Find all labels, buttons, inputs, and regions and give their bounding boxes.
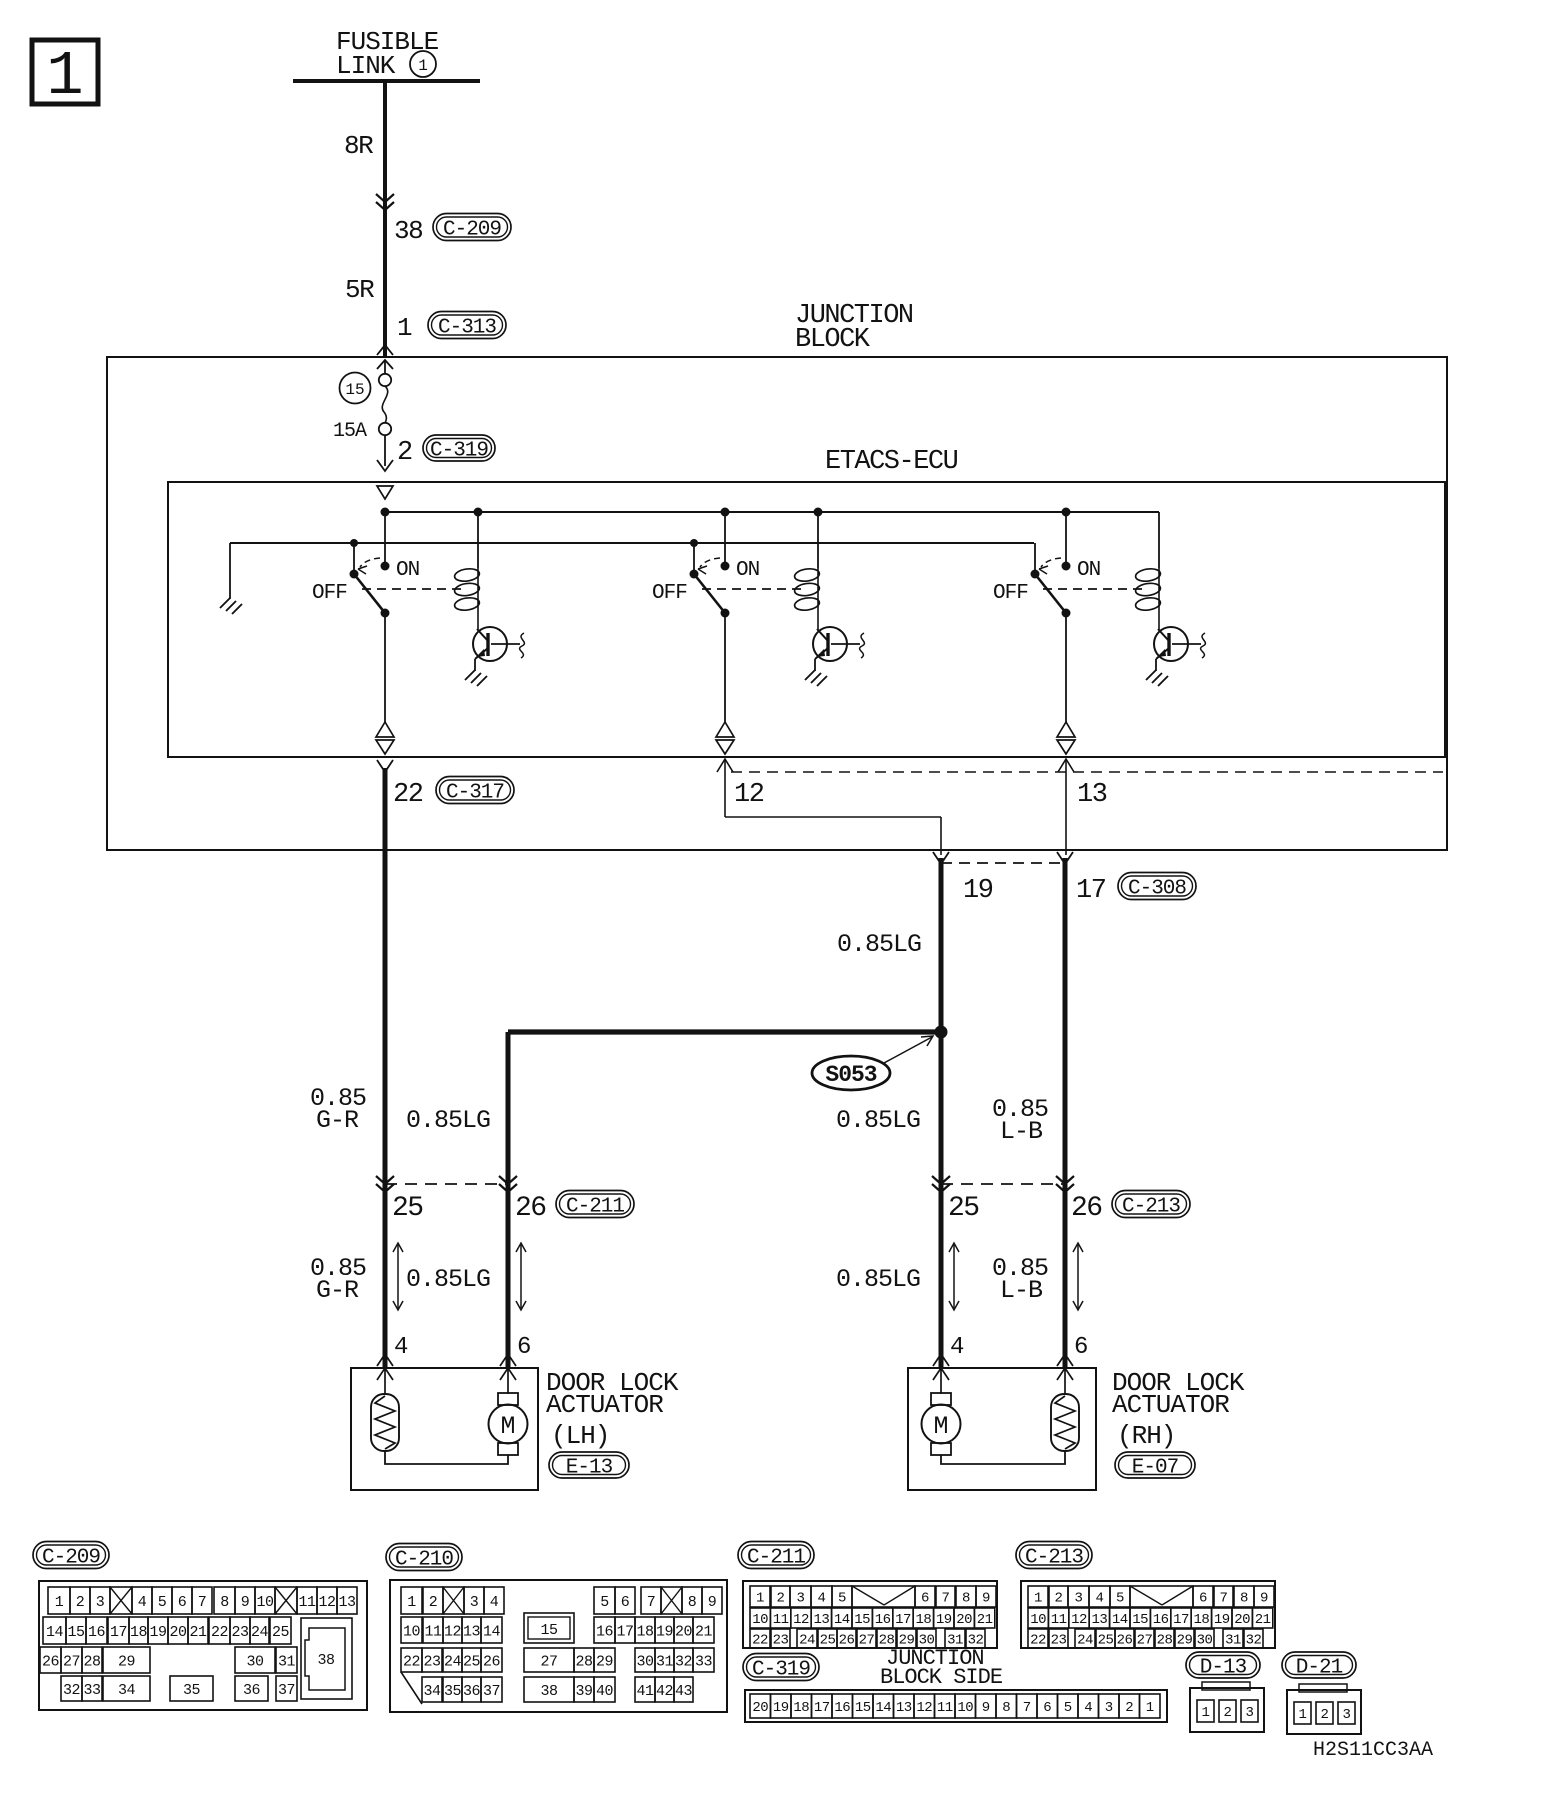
svg-text:5: 5 bbox=[1116, 1591, 1124, 1607]
svg-text:8: 8 bbox=[220, 1594, 229, 1611]
svg-text:6: 6 bbox=[1074, 1334, 1087, 1361]
svg-text:1: 1 bbox=[418, 57, 428, 75]
svg-text:30: 30 bbox=[246, 1653, 264, 1670]
svg-text:8: 8 bbox=[962, 1591, 970, 1607]
svg-text:9: 9 bbox=[241, 1594, 250, 1611]
svg-text:37: 37 bbox=[483, 1683, 500, 1700]
svg-text:C-209: C-209 bbox=[42, 1547, 100, 1570]
svg-text:16: 16 bbox=[88, 1624, 106, 1641]
svg-text:2: 2 bbox=[1224, 1705, 1232, 1721]
svg-text:38: 38 bbox=[317, 1652, 335, 1669]
svg-text:41: 41 bbox=[636, 1683, 654, 1700]
svg-text:15: 15 bbox=[540, 1622, 558, 1639]
svg-text:D-21: D-21 bbox=[1296, 1657, 1343, 1680]
svg-text:24: 24 bbox=[799, 1633, 815, 1649]
svg-text:2: 2 bbox=[1321, 1707, 1329, 1723]
svg-text:BLOCK: BLOCK bbox=[795, 325, 871, 355]
svg-text:9: 9 bbox=[982, 1591, 990, 1607]
svg-text:12: 12 bbox=[734, 780, 764, 810]
svg-text:C-209: C-209 bbox=[443, 219, 501, 242]
svg-text:12: 12 bbox=[1071, 1612, 1087, 1628]
svg-text:1: 1 bbox=[1202, 1705, 1210, 1721]
svg-text:2: 2 bbox=[397, 438, 412, 468]
svg-text:4: 4 bbox=[950, 1334, 964, 1361]
svg-text:12: 12 bbox=[318, 1594, 335, 1611]
svg-text:3: 3 bbox=[797, 1591, 805, 1607]
svg-text:C-317: C-317 bbox=[446, 782, 504, 805]
svg-text:18: 18 bbox=[915, 1612, 931, 1628]
svg-text:C-319: C-319 bbox=[430, 440, 488, 463]
svg-text:3: 3 bbox=[1343, 1707, 1351, 1723]
svg-text:1: 1 bbox=[1034, 1591, 1042, 1607]
svg-text:G-R: G-R bbox=[316, 1106, 359, 1135]
svg-text:20: 20 bbox=[675, 1623, 693, 1640]
svg-text:8R: 8R bbox=[344, 131, 373, 161]
svg-text:6: 6 bbox=[517, 1334, 530, 1361]
svg-text:8: 8 bbox=[1002, 1700, 1010, 1716]
svg-text:7: 7 bbox=[1023, 1700, 1031, 1716]
svg-text:32: 32 bbox=[63, 1682, 80, 1699]
svg-text:10: 10 bbox=[752, 1612, 768, 1628]
svg-text:22: 22 bbox=[403, 1653, 420, 1670]
svg-text:0.85LG: 0.85LG bbox=[406, 1265, 490, 1294]
svg-text:9: 9 bbox=[982, 1700, 990, 1716]
svg-text:38: 38 bbox=[394, 216, 422, 246]
svg-text:23: 23 bbox=[423, 1653, 441, 1670]
svg-text:26: 26 bbox=[839, 1633, 855, 1649]
svg-text:30: 30 bbox=[1197, 1633, 1213, 1649]
svg-text:C-210: C-210 bbox=[395, 1549, 453, 1572]
svg-text:26: 26 bbox=[1071, 1193, 1102, 1224]
svg-text:25: 25 bbox=[272, 1624, 290, 1641]
svg-text:26: 26 bbox=[1117, 1633, 1133, 1649]
svg-text:C-308: C-308 bbox=[1128, 878, 1186, 901]
svg-text:(RH): (RH) bbox=[1117, 1421, 1175, 1451]
svg-text:5R: 5R bbox=[345, 275, 374, 305]
svg-text:13: 13 bbox=[1091, 1612, 1107, 1628]
svg-text:36: 36 bbox=[463, 1683, 481, 1700]
svg-text:3: 3 bbox=[1105, 1700, 1113, 1716]
svg-text:10: 10 bbox=[1030, 1612, 1046, 1628]
svg-text:OFF: OFF bbox=[652, 582, 687, 605]
svg-text:ACTUATOR: ACTUATOR bbox=[1112, 1390, 1229, 1420]
svg-text:20: 20 bbox=[956, 1612, 972, 1628]
svg-text:12: 12 bbox=[793, 1612, 809, 1628]
svg-text:31: 31 bbox=[656, 1653, 674, 1670]
svg-text:19: 19 bbox=[1214, 1612, 1230, 1628]
svg-text:23: 23 bbox=[1051, 1633, 1067, 1649]
svg-text:1: 1 bbox=[756, 1591, 764, 1607]
svg-text:17: 17 bbox=[1173, 1612, 1189, 1628]
svg-text:11: 11 bbox=[937, 1700, 953, 1716]
svg-text:M: M bbox=[933, 1412, 948, 1441]
svg-text:16: 16 bbox=[875, 1612, 891, 1628]
svg-text:22: 22 bbox=[752, 1633, 768, 1649]
svg-text:27: 27 bbox=[63, 1653, 80, 1670]
svg-text:2: 2 bbox=[777, 1591, 785, 1607]
svg-text:19: 19 bbox=[963, 876, 993, 906]
svg-text:18: 18 bbox=[1193, 1612, 1209, 1628]
svg-text:8: 8 bbox=[688, 1594, 697, 1611]
svg-text:14: 14 bbox=[875, 1700, 891, 1716]
svg-text:27: 27 bbox=[859, 1633, 875, 1649]
svg-text:E-13: E-13 bbox=[566, 1457, 613, 1480]
svg-text:D-13: D-13 bbox=[1200, 1657, 1247, 1680]
svg-text:5: 5 bbox=[838, 1591, 846, 1607]
svg-text:3: 3 bbox=[1246, 1705, 1254, 1721]
svg-text:19: 19 bbox=[936, 1612, 952, 1628]
svg-text:14: 14 bbox=[834, 1612, 850, 1628]
svg-text:ON: ON bbox=[736, 559, 759, 582]
svg-text:16: 16 bbox=[1153, 1612, 1169, 1628]
svg-text:40: 40 bbox=[596, 1683, 614, 1700]
svg-text:4: 4 bbox=[138, 1594, 147, 1611]
svg-text:12: 12 bbox=[916, 1700, 932, 1716]
svg-text:15: 15 bbox=[345, 381, 364, 399]
svg-text:10: 10 bbox=[403, 1623, 421, 1640]
svg-text:20: 20 bbox=[169, 1624, 187, 1641]
svg-text:31: 31 bbox=[278, 1653, 296, 1670]
svg-text:28: 28 bbox=[575, 1653, 593, 1670]
svg-text:33: 33 bbox=[695, 1653, 713, 1670]
svg-text:14: 14 bbox=[1112, 1612, 1128, 1628]
svg-text:2: 2 bbox=[1125, 1700, 1133, 1716]
svg-text:16: 16 bbox=[834, 1700, 850, 1716]
svg-text:H2S11CC3AA: H2S11CC3AA bbox=[1313, 1739, 1433, 1762]
svg-text:L-B: L-B bbox=[1000, 1117, 1043, 1146]
svg-text:25: 25 bbox=[463, 1653, 481, 1670]
svg-text:17: 17 bbox=[1076, 876, 1106, 906]
svg-text:18: 18 bbox=[636, 1623, 654, 1640]
svg-text:30: 30 bbox=[636, 1653, 654, 1670]
svg-text:7: 7 bbox=[1220, 1591, 1228, 1607]
svg-text:21: 21 bbox=[189, 1624, 207, 1641]
svg-text:42: 42 bbox=[656, 1683, 673, 1700]
svg-text:0.85LG: 0.85LG bbox=[836, 1106, 920, 1135]
svg-text:11: 11 bbox=[298, 1594, 316, 1611]
svg-text:19: 19 bbox=[656, 1623, 673, 1640]
svg-text:1: 1 bbox=[1146, 1700, 1154, 1716]
svg-text:34: 34 bbox=[423, 1683, 441, 1700]
svg-text:9: 9 bbox=[708, 1594, 717, 1611]
svg-text:C-319: C-319 bbox=[752, 1659, 810, 1682]
svg-text:27: 27 bbox=[540, 1653, 557, 1670]
svg-text:21: 21 bbox=[1255, 1612, 1271, 1628]
svg-text:28: 28 bbox=[83, 1653, 101, 1670]
svg-text:31: 31 bbox=[1225, 1633, 1241, 1649]
svg-text:6: 6 bbox=[1199, 1591, 1207, 1607]
svg-text:24: 24 bbox=[1077, 1633, 1093, 1649]
svg-text:29: 29 bbox=[118, 1653, 135, 1670]
svg-text:36: 36 bbox=[243, 1682, 261, 1699]
svg-text:3: 3 bbox=[470, 1594, 479, 1611]
svg-text:16: 16 bbox=[596, 1623, 614, 1640]
svg-text:15: 15 bbox=[855, 1700, 871, 1716]
svg-text:6: 6 bbox=[621, 1594, 630, 1611]
svg-text:G-R: G-R bbox=[316, 1276, 359, 1305]
svg-text:BLOCK SIDE: BLOCK SIDE bbox=[880, 1665, 1003, 1690]
svg-text:29: 29 bbox=[1177, 1633, 1193, 1649]
svg-text:13: 13 bbox=[463, 1623, 481, 1640]
svg-text:1: 1 bbox=[407, 1594, 416, 1611]
svg-text:35: 35 bbox=[444, 1683, 462, 1700]
svg-text:26: 26 bbox=[515, 1193, 546, 1224]
svg-text:L-B: L-B bbox=[1000, 1276, 1043, 1305]
svg-text:22: 22 bbox=[393, 780, 423, 810]
svg-text:5: 5 bbox=[600, 1594, 609, 1611]
svg-text:C-213: C-213 bbox=[1025, 1547, 1083, 1570]
svg-text:20: 20 bbox=[752, 1700, 768, 1716]
svg-text:15: 15 bbox=[1132, 1612, 1148, 1628]
svg-text:1: 1 bbox=[397, 313, 412, 343]
svg-text:ETACS-ECU: ETACS-ECU bbox=[825, 447, 958, 477]
svg-text:11: 11 bbox=[424, 1623, 442, 1640]
svg-text:25: 25 bbox=[392, 1193, 423, 1224]
svg-text:6: 6 bbox=[178, 1594, 187, 1611]
svg-text:32: 32 bbox=[1246, 1633, 1262, 1649]
svg-text:C-211: C-211 bbox=[566, 1196, 624, 1219]
svg-text:18: 18 bbox=[793, 1700, 809, 1716]
svg-text:5: 5 bbox=[158, 1594, 167, 1611]
svg-text:33: 33 bbox=[83, 1682, 101, 1699]
svg-text:24: 24 bbox=[251, 1624, 269, 1641]
svg-text:39: 39 bbox=[575, 1683, 592, 1700]
svg-text:25: 25 bbox=[820, 1633, 836, 1649]
svg-text:13: 13 bbox=[338, 1594, 356, 1611]
svg-text:25: 25 bbox=[948, 1193, 979, 1224]
svg-text:35: 35 bbox=[183, 1682, 201, 1699]
svg-text:20: 20 bbox=[1234, 1612, 1250, 1628]
svg-text:27: 27 bbox=[1137, 1633, 1153, 1649]
svg-text:0.85LG: 0.85LG bbox=[836, 1265, 920, 1294]
svg-text:3: 3 bbox=[1075, 1591, 1083, 1607]
svg-text:2: 2 bbox=[76, 1594, 85, 1611]
svg-text:10: 10 bbox=[957, 1700, 973, 1716]
svg-text:S053: S053 bbox=[825, 1062, 876, 1088]
svg-text:13: 13 bbox=[813, 1612, 829, 1628]
svg-text:1: 1 bbox=[55, 1594, 64, 1611]
svg-text:43: 43 bbox=[675, 1683, 693, 1700]
svg-text:29: 29 bbox=[596, 1653, 613, 1670]
svg-text:26: 26 bbox=[483, 1653, 501, 1670]
svg-text:32: 32 bbox=[675, 1653, 692, 1670]
svg-text:4: 4 bbox=[1084, 1700, 1092, 1716]
svg-text:2: 2 bbox=[1055, 1591, 1063, 1607]
svg-text:9: 9 bbox=[1260, 1591, 1268, 1607]
svg-text:C-313: C-313 bbox=[438, 317, 496, 340]
svg-text:LINK: LINK bbox=[336, 51, 396, 81]
svg-text:OFF: OFF bbox=[993, 582, 1028, 605]
svg-text:23: 23 bbox=[773, 1633, 789, 1649]
svg-text:37: 37 bbox=[278, 1682, 295, 1699]
svg-text:28: 28 bbox=[1157, 1633, 1173, 1649]
svg-text:17: 17 bbox=[110, 1624, 127, 1641]
svg-text:26: 26 bbox=[42, 1653, 60, 1670]
svg-text:7: 7 bbox=[647, 1594, 656, 1611]
svg-text:21: 21 bbox=[695, 1623, 713, 1640]
svg-text:21: 21 bbox=[977, 1612, 993, 1628]
svg-text:E-07: E-07 bbox=[1132, 1457, 1178, 1480]
svg-text:C-211: C-211 bbox=[747, 1547, 805, 1570]
svg-text:15: 15 bbox=[67, 1624, 85, 1641]
svg-text:17: 17 bbox=[814, 1700, 830, 1716]
svg-text:4: 4 bbox=[818, 1591, 826, 1607]
svg-text:15A: 15A bbox=[333, 420, 367, 443]
svg-text:19: 19 bbox=[773, 1700, 789, 1716]
svg-text:6: 6 bbox=[1043, 1700, 1051, 1716]
svg-text:8: 8 bbox=[1240, 1591, 1248, 1607]
svg-text:18: 18 bbox=[130, 1624, 148, 1641]
svg-text:17: 17 bbox=[895, 1612, 911, 1628]
svg-text:4: 4 bbox=[490, 1594, 499, 1611]
svg-text:1: 1 bbox=[46, 41, 83, 112]
svg-text:13: 13 bbox=[896, 1700, 912, 1716]
svg-text:4: 4 bbox=[394, 1334, 408, 1361]
svg-text:13: 13 bbox=[1077, 780, 1107, 810]
svg-text:2: 2 bbox=[429, 1594, 438, 1611]
svg-text:C-213: C-213 bbox=[1122, 1196, 1180, 1219]
svg-text:ACTUATOR: ACTUATOR bbox=[546, 1390, 663, 1420]
svg-text:38: 38 bbox=[540, 1683, 558, 1700]
svg-text:0.85LG: 0.85LG bbox=[406, 1106, 490, 1135]
svg-text:OFF: OFF bbox=[312, 582, 347, 605]
svg-text:7: 7 bbox=[942, 1591, 950, 1607]
svg-text:3: 3 bbox=[96, 1594, 105, 1611]
svg-text:34: 34 bbox=[118, 1682, 136, 1699]
svg-text:4: 4 bbox=[1096, 1591, 1104, 1607]
svg-text:1: 1 bbox=[1299, 1707, 1307, 1723]
svg-text:17: 17 bbox=[616, 1623, 633, 1640]
svg-text:15: 15 bbox=[854, 1612, 870, 1628]
svg-text:22: 22 bbox=[1030, 1633, 1046, 1649]
svg-text:23: 23 bbox=[231, 1624, 249, 1641]
svg-text:0.85LG: 0.85LG bbox=[837, 930, 921, 959]
svg-text:10: 10 bbox=[256, 1594, 274, 1611]
svg-text:11: 11 bbox=[1051, 1612, 1067, 1628]
svg-text:ON: ON bbox=[1077, 559, 1100, 582]
svg-text:7: 7 bbox=[198, 1594, 207, 1611]
svg-text:19: 19 bbox=[149, 1624, 166, 1641]
svg-text:12: 12 bbox=[444, 1623, 461, 1640]
svg-text:25: 25 bbox=[1098, 1633, 1114, 1649]
svg-text:M: M bbox=[500, 1412, 515, 1441]
svg-text:(LH): (LH) bbox=[551, 1421, 609, 1451]
svg-text:5: 5 bbox=[1064, 1700, 1072, 1716]
svg-text:22: 22 bbox=[211, 1624, 228, 1641]
svg-text:14: 14 bbox=[46, 1624, 64, 1641]
svg-text:11: 11 bbox=[773, 1612, 789, 1628]
svg-text:ON: ON bbox=[396, 559, 419, 582]
svg-text:24: 24 bbox=[444, 1653, 462, 1670]
svg-text:6: 6 bbox=[921, 1591, 929, 1607]
svg-text:14: 14 bbox=[483, 1623, 501, 1640]
